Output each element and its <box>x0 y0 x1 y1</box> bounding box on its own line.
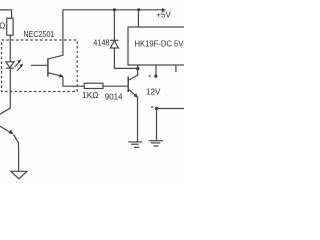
svg-text:9014: 9014 <box>105 92 123 101</box>
junction node diode top <box>113 8 116 11</box>
wire opto emitter to R2 <box>63 77 84 87</box>
cropped transistor Q2 collector diagonal <box>0 108 11 114</box>
diode D1 cathode bar <box>110 39 119 41</box>
LED light emission arrow 1 <box>15 62 20 67</box>
resistor R2 1KΩ body <box>84 83 103 88</box>
wire resistor to LED anode <box>9 35 11 62</box>
diode D1 bottom lead to coil node <box>114 48 137 68</box>
resistor R-in (1KΩ, value cropped) body <box>7 18 13 35</box>
load wire stub dash <box>151 106 154 108</box>
wire R2 to Q1 base <box>103 85 128 87</box>
LED cathode bar <box>6 67 14 69</box>
svg-text:4148: 4148 <box>93 39 110 48</box>
+5V rail end arrowhead <box>162 8 166 12</box>
svg-text:NEC2501: NEC2501 <box>23 30 54 39</box>
relay K1 box HK19F-DC <box>128 27 191 65</box>
LED light emission arrow 2 <box>17 66 22 71</box>
transistor Q1 emitter arrowhead <box>134 93 138 97</box>
relay pin contact common <box>155 65 157 75</box>
relay contact terminal dot <box>154 75 157 78</box>
svg-text:1KΩ: 1KΩ <box>82 91 98 100</box>
transistor Q1 9014 base bar <box>127 77 129 93</box>
chassis ground triangle <box>11 171 27 179</box>
phototransistor emitter arrowhead <box>59 74 64 78</box>
svg-text:HK19F-DC 5V-: HK19F-DC 5V- <box>135 39 185 48</box>
junction dot coil node <box>136 67 139 70</box>
phototransistor body bar <box>47 58 49 76</box>
relay K1 coil pin from box <box>137 65 139 69</box>
top +5V rail <box>63 9 162 11</box>
ground symbol G1 under Q1 <box>128 141 142 143</box>
relay pin armature <box>175 65 177 72</box>
diode D1 triangle <box>110 41 118 48</box>
wire Q1 emitter down to ground <box>137 97 139 141</box>
relay contact NO terminal dot <box>149 75 151 77</box>
cropped transistor Q2 emitter arrowhead <box>8 130 13 135</box>
transistor Q1 collector diagonal <box>129 69 138 80</box>
cropped transistor Q2 emitter diagonal <box>0 126 9 131</box>
wire LED cathode down <box>9 68 11 108</box>
diode D1 4148 top lead <box>113 10 115 41</box>
wire relay top pin <box>137 10 139 27</box>
junction node relay top <box>137 8 140 11</box>
wire 12V line to right edge <box>157 108 184 110</box>
svg-text:Ω: Ω <box>0 20 5 30</box>
wire input left to resistor R-in <box>0 10 12 18</box>
transistor Q1 emitter diagonal <box>129 89 138 97</box>
phototransistor collector to top rail <box>48 10 63 59</box>
wire 12V line down to ground G2 <box>156 108 158 140</box>
phototransistor emitter diagonal <box>48 73 63 77</box>
optocoupler U1 NEC2501 dashed package box <box>2 40 78 92</box>
LED D-opto triangle <box>6 62 14 68</box>
svg-text:12V: 12V <box>146 87 161 96</box>
wire to chassis ground <box>14 135 19 172</box>
junction dot 12V line <box>155 107 158 110</box>
ground symbol G2 <box>149 140 163 142</box>
phototransistor base lead <box>31 64 48 66</box>
svg-text:+5V: +5V <box>156 10 171 19</box>
